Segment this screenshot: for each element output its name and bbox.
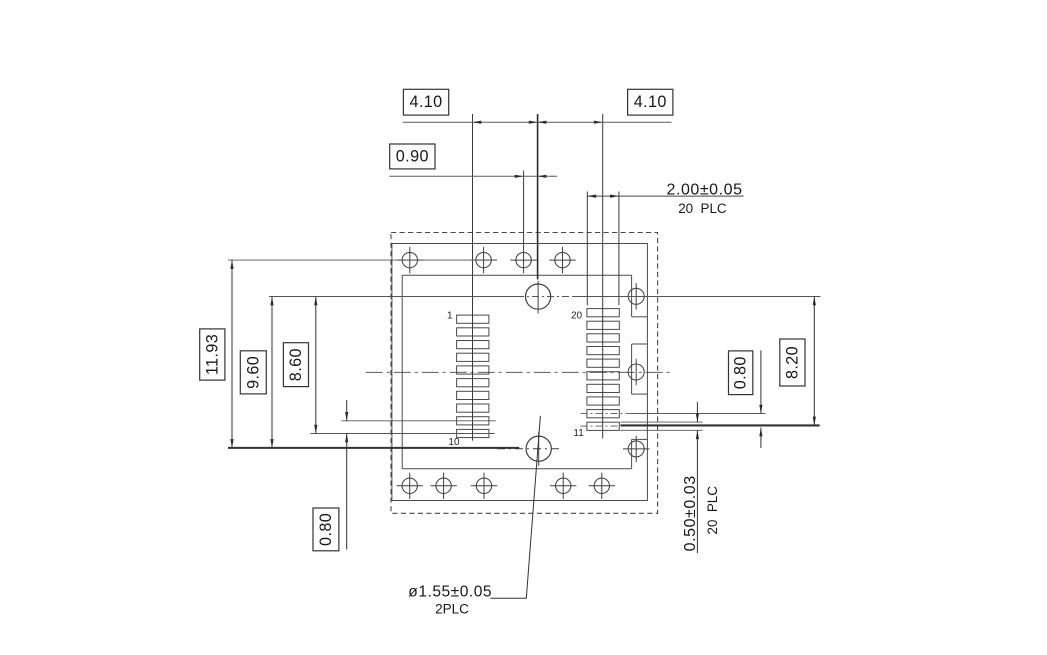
extension line hole 0.90 [523,171,525,248]
leader line 1.55 dia [491,416,541,598]
pad pin 11 [587,422,619,430]
extension line pad 12 center right [581,413,766,415]
svg-text:20: 20 [571,311,583,322]
svg-text:4.10: 4.10 [634,93,667,111]
dimension line 0.80 left [345,400,348,550]
hole top 3 [510,247,536,273]
hole bottom 5 [589,473,615,499]
pad pin 8 [457,404,489,412]
middle-right notch [632,344,648,394]
dimension box 4.10 right [628,89,673,115]
pad pin 2 [457,328,489,336]
dimension line 8.20 [813,297,816,426]
horizontal centerline [366,371,672,373]
top-right notch [632,275,648,317]
svg-text:2.00±0.05: 2.00±0.05 [667,182,743,199]
svg-text:20 PLC: 20 PLC [705,486,720,535]
bottom-right notch [632,439,648,468]
svg-text:1: 1 [447,311,453,322]
hole bottom 3 [471,473,497,499]
dimension line 11.93 [230,260,233,448]
svg-text:8.20: 8.20 [783,346,801,379]
pad pin 18 [587,334,619,342]
extension line left pad column center [472,114,474,441]
dimension line 0.80 right [759,350,762,448]
dimension line 2.00 [587,195,743,198]
extension line pad 11 center right (heavy) [581,424,820,427]
pad pin 3 [457,341,489,349]
extension line right pad column center [602,114,604,439]
body outline (dashed) [391,233,658,514]
svg-text:ø1.55±0.05: ø1.55±0.05 [408,584,492,601]
hole right 3 [623,436,649,462]
extension line part centerline vertical [537,114,539,280]
pad pin 4 [457,353,489,361]
hole right 2 [628,359,644,385]
dimension box 0.80 left [313,508,339,551]
dimension line 8.60 [314,297,317,434]
mounting hole top (1.55 dia) [526,281,551,314]
extension line pad left edge (2.00) [586,192,588,306]
svg-text:11: 11 [573,428,584,439]
svg-text:0.80: 0.80 [317,513,335,546]
extension line pad right edge (2.00) [618,192,620,306]
extension line top hole row [228,259,497,261]
pad pin 5 [457,366,489,374]
mounting hole bottom (1.55 dia) [497,432,561,466]
dimension box 0.80 right [729,351,753,395]
dimension line 9.60 [270,297,273,448]
svg-text:0.50±0.03: 0.50±0.03 [682,475,699,551]
dimension box 4.10 left [403,89,448,115]
pad pin 16 [587,359,619,367]
pad pin 15 [587,372,619,380]
extension line pad 9 center [342,420,496,422]
hole top 4 [549,247,575,273]
extension line mounting hole bottom (heavy) [228,447,519,449]
hole right 1 [628,283,644,309]
svg-text:2PLC: 2PLC [435,602,469,617]
extension line pad 10 center [310,433,494,435]
hole bottom 2 [430,473,456,499]
svg-text:20 PLC: 20 PLC [678,201,727,216]
pad pin 13 [587,397,619,405]
extension line pad 11 top right [621,421,703,423]
extension line pad 11 bottom right [621,429,703,431]
pad pin 1 [457,315,489,323]
dimension line 0.90 [389,175,557,178]
pad pin 19 [587,321,619,329]
dimension box 8.60 [283,343,308,387]
svg-text:0.90: 0.90 [396,147,429,165]
pad pin 17 [587,347,619,355]
dimension box 8.20 [780,339,805,386]
svg-text:9.60: 9.60 [244,356,262,389]
hole bottom 4 [550,473,576,499]
extension line mounting hole top [269,296,821,298]
pad pin 14 [587,384,619,392]
svg-text:4.10: 4.10 [409,93,442,111]
body border (solid) [392,244,648,501]
pad pin 9 [457,417,489,425]
dimension box 9.60 [240,351,266,394]
svg-text:0.80: 0.80 [732,356,750,389]
dimension line 4.10 pair [403,121,672,124]
pad pin 6 [457,379,489,387]
hole top 2 [470,247,496,273]
cavity outline [402,275,631,469]
svg-text:11.93: 11.93 [203,334,221,375]
svg-text:8.60: 8.60 [287,348,305,381]
hole bottom 1 [397,473,423,499]
pad pin 12 [587,410,619,418]
pad pin 20 [587,309,619,317]
dimension box 11.93 [200,329,225,380]
dimension line 0.50 [696,402,699,553]
pad pin 10 [457,429,489,437]
pad pin 7 [457,391,489,399]
svg-text:10: 10 [448,437,460,448]
dimension box 0.90 [390,144,435,169]
hole top 1 [397,247,423,273]
